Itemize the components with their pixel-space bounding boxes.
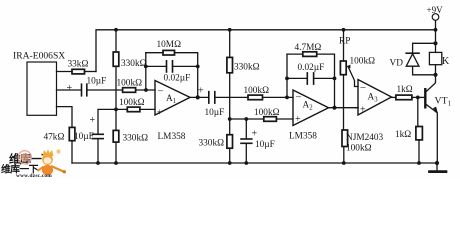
relay K coil box	[435, 43, 437, 52]
wire coupling2 to 100k A2 inv	[215, 96, 248, 98]
sensor IRA-E006SX body	[27, 62, 57, 115]
diode VD branch top wire	[413, 43, 436, 52]
capacitor 10uF decouple stage2	[241, 139, 252, 143]
svg-text:4.7MΩ: 4.7MΩ	[295, 43, 322, 53]
svg-text:A2: A2	[303, 101, 314, 112]
wire divider2 to bus	[229, 148, 231, 163]
watermark mascot	[38, 149, 67, 175]
resistor R 33k horizontal	[72, 69, 85, 74]
wire feedback2 top rail right	[317, 54, 335, 108]
wire RP bottom to 100k	[343, 75, 345, 130]
svg-text:+: +	[67, 83, 73, 94]
svg-text:–: –	[295, 92, 302, 103]
potentiometer RP body	[340, 61, 346, 75]
svg-text:100kΩ: 100kΩ	[119, 98, 145, 108]
wire 100k to A1 plus	[140, 108, 155, 110]
svg-text:100kΩ: 100kΩ	[350, 57, 376, 67]
svg-text:10µF: 10µF	[205, 108, 225, 118]
wire RP wiper to A3 minus	[348, 67, 358, 87]
svg-text:A1: A1	[166, 94, 176, 105]
svg-text:0.02µF: 0.02µF	[164, 74, 191, 84]
wire feedback2 top rail left	[287, 53, 303, 55]
wire A1 output run	[190, 96, 209, 98]
capacitor 0.02uF feedback1	[167, 61, 173, 72]
watermark dzsc	[1, 149, 66, 179]
capacitor 0.02uF feedback2	[307, 73, 313, 84]
svg-text:100kΩ: 100kΩ	[117, 79, 143, 89]
ground symbol	[436, 163, 438, 170]
svg-text:+9V: +9V	[427, 5, 444, 15]
svg-text:+: +	[252, 129, 258, 140]
capacitor 10uF decouple stage1	[92, 134, 103, 138]
wire A3 plus stub	[355, 107, 358, 109]
op-amp A2 triangle	[293, 90, 329, 126]
resistor 100k to A1 non-inverting input	[127, 107, 140, 112]
resistor 100k below RP	[342, 130, 348, 147]
svg-text:100kΩ: 100kΩ	[254, 108, 280, 118]
wire 100k to A1 minus	[136, 89, 155, 91]
svg-text:www.dzsc.com: www.dzsc.com	[16, 173, 52, 178]
svg-text:0.02µF: 0.02µF	[298, 63, 325, 73]
svg-text:47kΩ: 47kΩ	[44, 133, 65, 143]
svg-text:1kΩ: 1kΩ	[395, 130, 411, 140]
resistor 10M feedback	[163, 50, 175, 55]
svg-text:10MΩ: 10MΩ	[157, 40, 182, 50]
svg-text:K: K	[442, 56, 450, 67]
svg-text:+: +	[157, 108, 163, 119]
wire 1k to base node	[412, 96, 424, 98]
potentiometer RP drop from bus	[343, 30, 345, 61]
capacitor 10uF coupling stage2	[209, 92, 215, 103]
node +9V terminal circle	[432, 14, 439, 21]
svg-text:100kΩ: 100kΩ	[346, 144, 372, 154]
wire feedback1 cap rail left	[146, 65, 167, 67]
svg-text:1kΩ: 1kΩ	[397, 85, 413, 95]
wire top bus +9V rail	[96, 30, 436, 72]
svg-text:LM358: LM358	[289, 132, 317, 142]
wire divider2 vertical from bus	[229, 30, 231, 58]
wire RP 100k to bus	[343, 147, 345, 164]
wire A2 output to A3 plus	[329, 107, 359, 109]
wire feedback2 cap rail right	[314, 77, 335, 79]
svg-text:10µF: 10µF	[74, 132, 94, 142]
wire feedback1 cap rail right	[173, 65, 198, 67]
svg-text:NJM2403: NJM2403	[346, 133, 384, 143]
svg-text:33kΩ: 33kΩ	[68, 60, 89, 70]
wire VD bottom	[413, 66, 436, 75]
svg-text:330kΩ: 330kΩ	[234, 63, 260, 73]
resistor 330k divider1 top	[113, 52, 119, 66]
diode VD symbol	[406, 52, 419, 54]
resistor 100k to A1 inverting input	[123, 88, 136, 93]
wire ground bus bottom	[72, 162, 438, 164]
wire bias1 node run	[98, 109, 127, 134]
wire divider2 mid crossing signal	[229, 73, 231, 135]
wire divider1 to bus	[115, 142, 117, 163]
wire 33k to top bus	[85, 71, 97, 73]
wire +9V terminal drop	[435, 21, 437, 44]
capacitor 10uF coupling stage1	[82, 84, 87, 96]
svg-text:330kΩ: 330kΩ	[121, 59, 147, 69]
wire sensor third pin	[57, 107, 73, 128]
wire 100k to A2 minus	[263, 96, 294, 98]
resistor 330k divider2 top	[227, 57, 233, 72]
svg-text:RP: RP	[339, 37, 350, 47]
wire feedback1 top rail left	[146, 52, 163, 54]
svg-text:10µF: 10µF	[255, 140, 275, 150]
resistor 100k to A2 non-inverting input	[264, 117, 277, 122]
svg-text:–: –	[157, 86, 164, 97]
resistor 330k divider1 bottom	[113, 130, 119, 142]
wire divider1 mid crossing signal	[115, 66, 117, 130]
wire sensor drain pin to 33k	[57, 71, 73, 73]
wire feedback2 cap rail left	[287, 77, 307, 79]
svg-text:LM358: LM358	[158, 132, 186, 142]
svg-text:–: –	[360, 82, 367, 93]
resistor 330k divider2 bottom	[227, 135, 233, 149]
op-amp A1 triangle	[155, 81, 190, 116]
wire decouple2 to bus	[245, 143, 247, 163]
op-amp A3 triangle	[358, 80, 392, 116]
svg-text:+: +	[295, 114, 301, 125]
resistor 4.7M feedback	[303, 52, 317, 57]
svg-text:VT1: VT1	[435, 96, 452, 108]
watermark stamp circle	[18, 151, 31, 164]
wire sensor source pin middle	[57, 89, 82, 91]
svg-text:IRA-E006SX: IRA-E006SX	[13, 51, 65, 62]
svg-text:VD: VD	[390, 59, 404, 69]
svg-text:10µF: 10µF	[87, 77, 107, 87]
svg-text:+: +	[360, 105, 366, 116]
resistor 100k to A2 inverting input	[248, 95, 263, 100]
svg-text:A3: A3	[368, 93, 379, 104]
wire cap to 100k A1 inv input	[87, 89, 123, 91]
resistor 47k vertical	[69, 127, 75, 140]
wire decouple1 to bus	[97, 139, 99, 163]
transistor VT1	[424, 88, 426, 109]
svg-text:330kΩ: 330kΩ	[199, 139, 225, 149]
wire divider1 vertical from bus	[115, 30, 117, 52]
wire base 1k to bus	[418, 140, 420, 163]
resistor 1k base to ground	[417, 97, 419, 126]
svg-text:100kΩ: 100kΩ	[244, 86, 270, 96]
wire feedback2 left vertical	[286, 54, 288, 97]
svg-text:+: +	[198, 86, 204, 97]
wire bias2 node run	[230, 118, 264, 120]
wire feedback1 top rail right	[175, 53, 198, 98]
wire feedback1 left vertical	[145, 53, 147, 90]
wire decouple2 drop	[245, 119, 247, 139]
svg-text:+: +	[90, 115, 96, 126]
wire 47k to ground bus	[71, 141, 73, 163]
svg-text:330kΩ: 330kΩ	[123, 134, 149, 144]
wire 100k to A2 plus	[276, 118, 293, 120]
resistor 1k at A3 output	[392, 96, 396, 98]
